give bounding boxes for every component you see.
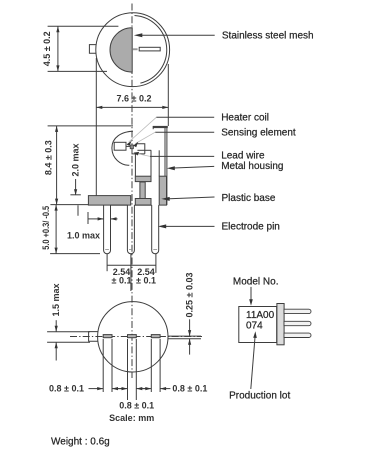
electrode pin left [104, 205, 111, 254]
svg-text:4.5 ± 0.2: 4.5 ± 0.2 [42, 31, 52, 66]
pin profile lines right [168, 335, 201, 337]
dim 0.8 center arrows [118, 388, 128, 390]
svg-text:Electrode pin: Electrode pin [222, 221, 280, 232]
top view inner rim arc (right half) [135, 16, 167, 84]
ceramic spool bottom flange [135, 199, 151, 206]
ceramic spool top flange [135, 176, 151, 181]
Model No. arrow [250, 287, 252, 301]
svg-text:Model No.: Model No. [233, 276, 279, 287]
dim 7.6±0.2 dimension line with arrows [96, 106, 168, 108]
top view outer circle (metal housing top) [96, 13, 170, 87]
svg-text:2.0 max: 2.0 max [71, 143, 81, 176]
base mold tick [77, 205, 79, 215]
dim 4.5±0.2 dimension line with arrows [57, 26, 59, 71]
pin pad center [128, 335, 137, 338]
electrode pin center [127, 205, 134, 254]
base bottom line segments [111, 204, 128, 206]
metal housing top-right step (thick) [153, 126, 168, 128]
metal housing left wall [95, 126, 97, 196]
dim 1.5 max dimension lines with arrows [55, 320, 57, 331]
svg-text:8.4 ± 0.3: 8.4 ± 0.3 [43, 140, 53, 175]
lead wire segments [132, 149, 145, 154]
heater coil box [114, 142, 126, 150]
svg-text:Weight : 0.6g: Weight : 0.6g [51, 437, 110, 448]
dim 1.0 max arrows at left pin [88, 218, 104, 220]
dim 5.0 dimension line [55, 205, 57, 254]
svg-text:0.8 ± 0.1: 0.8 ± 0.1 [172, 383, 207, 393]
svg-text:074: 074 [246, 321, 263, 332]
label: Lead wire with callout [150, 155, 214, 157]
svg-text:Heater coil: Heater coil [221, 112, 269, 123]
support tube walls [134, 154, 136, 176]
svg-text:0.8 ± 0.1: 0.8 ± 0.1 [119, 400, 154, 410]
label: Stainless steel mesh with arrow [141, 34, 215, 36]
bottom view horizontal centerline [70, 336, 202, 338]
sensing element bead [130, 145, 133, 149]
svg-text:1.0 max: 1.0 max [67, 231, 100, 241]
dim 8.4±0.3 dimension line [56, 126, 58, 205]
svg-text:Sensing element: Sensing element [221, 128, 296, 139]
bottom view circle [98, 302, 168, 372]
label: Sensing element with callout [155, 131, 214, 133]
center pin tip extension line [130, 254, 132, 291]
dim 0.25±0.03 dimension lines with arrows [189, 319, 191, 336]
svg-text:0.25 ± 0.03: 0.25 ± 0.03 [184, 273, 194, 318]
pin pad extension lines downward [102, 339, 104, 392]
label: Electrode pin with arrow [165, 225, 215, 227]
label: Plastic base with arrow [170, 197, 215, 199]
svg-text:Plastic base: Plastic base [222, 193, 276, 204]
pin pad left [103, 335, 112, 338]
package pin middle [284, 321, 311, 325]
metal housing right wall (double line) [164, 128, 166, 205]
dim 7.6±0.2 extension lines [95, 58, 97, 126]
package pin top [284, 309, 311, 313]
metal housing top-left line (with 8.4 extension) [48, 125, 133, 127]
svg-text:Lead wire: Lead wire [221, 150, 265, 161]
label: Heater coil with callout [156, 116, 214, 118]
svg-text:Stainless steel mesh: Stainless steel mesh [222, 31, 314, 42]
bottom view left tab [89, 332, 98, 342]
Production lot arrow [251, 336, 255, 389]
svg-text:± 0.1: ± 0.1 [112, 275, 132, 285]
svg-text:Production lot: Production lot [229, 391, 290, 402]
package right bar [277, 304, 284, 345]
inner right wall line [158, 150, 160, 176]
inner dome curve [112, 131, 133, 165]
dim 4.5±0.2 extension lines [48, 25, 119, 27]
electrode pin right [152, 205, 159, 254]
svg-text:5.0 +0.3/ -0.5: 5.0 +0.3/ -0.5 [41, 206, 51, 250]
plastic base bar (gray) [88, 196, 130, 206]
stainless steel mesh (gray half disc) [110, 28, 132, 72]
svg-text:Metal housing: Metal housing [221, 161, 283, 172]
dim 2.54 dimension line [107, 264, 156, 266]
dim 0.8 left arrows [89, 388, 104, 390]
center axis dash-dot line [131, 4, 133, 379]
svg-text:1.5 max: 1.5 max [51, 283, 61, 316]
svg-text:Scale: mm: Scale: mm [109, 413, 154, 423]
package pin bottom [284, 333, 311, 337]
svg-text:7.6 ± 0.2: 7.6 ± 0.2 [117, 94, 152, 104]
svg-text:± 0.1: ± 0.1 [136, 275, 156, 285]
pin pad right [151, 335, 160, 338]
dim 1.5 max extension lines [47, 331, 90, 333]
ceramic spool web [140, 182, 145, 199]
dim 0.8 right arrows [141, 388, 151, 390]
plastic base right column (gray) [159, 176, 166, 205]
package body [239, 307, 277, 343]
dim 5.0 extension lines [50, 204, 88, 206]
top view slot [139, 47, 160, 51]
svg-text:0.8 ± 0.1: 0.8 ± 0.1 [49, 384, 84, 394]
dim 2.0 max leader [75, 179, 77, 195]
top view left tab [89, 45, 96, 54]
coil-to-bead wire [126, 145, 132, 147]
dim 2.54 extension lines from pin tips [106, 254, 108, 271]
svg-text:11A00: 11A00 [246, 310, 275, 321]
label: Metal housing with arrow [174, 166, 214, 168]
top view center dash mark [133, 48, 138, 50]
